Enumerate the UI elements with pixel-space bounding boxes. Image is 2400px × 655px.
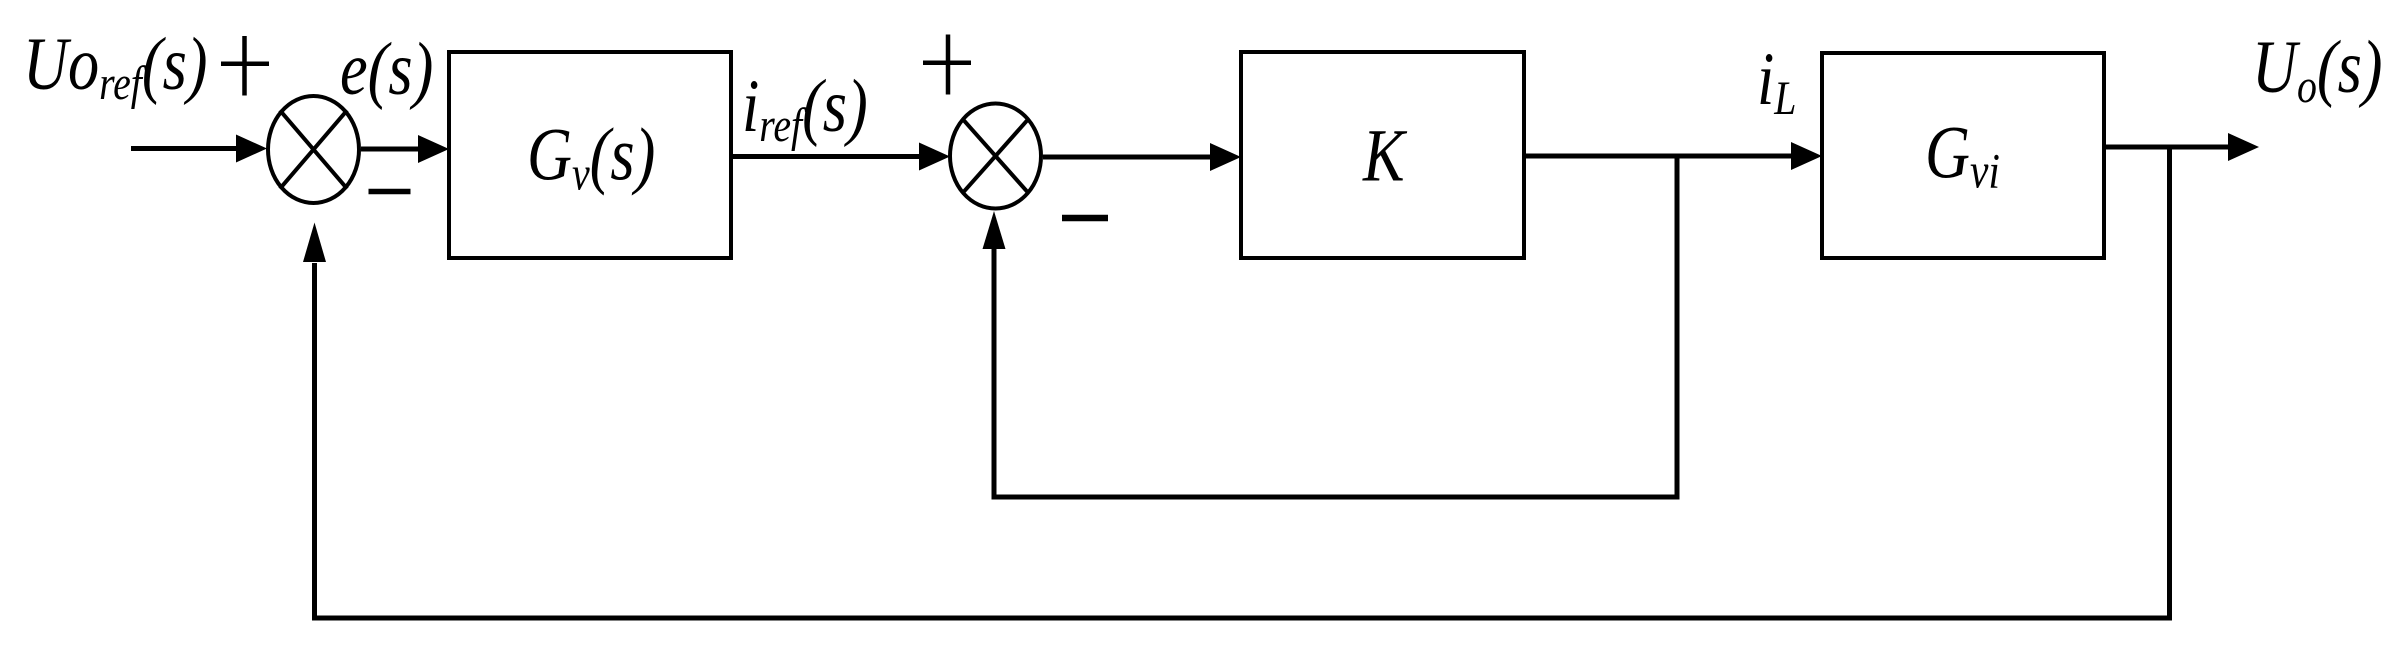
- svg-text:Uo(s): Uo(s): [2252, 26, 2383, 113]
- minus sign below S1 output: [369, 189, 411, 195]
- node e(s) label: [340, 28, 433, 111]
- wire K to Gvi with junction node: [1526, 142, 1822, 170]
- wire Gvi output arrow: [2106, 133, 2259, 161]
- svg-text:e(s): e(s): [340, 28, 433, 111]
- wire input arrow into S1: [131, 135, 267, 163]
- node Uo_ref(s) input label: [23, 23, 208, 110]
- block K label: [1362, 114, 1407, 197]
- block Gvi label: [1925, 111, 2000, 198]
- summing junction S2: [950, 104, 1041, 209]
- svg-text:K: K: [1362, 114, 1407, 197]
- svg-text:Gv(s): Gv(s): [527, 113, 655, 200]
- block Gvi box: [1822, 53, 2104, 258]
- node i_ref(s) label: [742, 65, 868, 152]
- node i_L label: [1757, 38, 1796, 125]
- block Gv(s) label: [527, 113, 655, 200]
- block Gv(s) box: [449, 52, 731, 258]
- wire inner feedback loop from K output down and back to S2: [983, 156, 1678, 497]
- wire outer feedback loop from output down and back to S1: [303, 147, 2170, 618]
- summing junction S1: [268, 96, 359, 203]
- wire S1 to Gv(s) block: [361, 135, 449, 163]
- plus sign at summing junction S2: [923, 35, 971, 95]
- node Uo(s) output label: [2252, 26, 2383, 113]
- minus sign right of S2: [1062, 215, 1108, 222]
- block K box: [1241, 52, 1524, 258]
- wire Gv(s) to S2: [733, 143, 950, 171]
- wire S2 to K block: [1043, 143, 1241, 171]
- plus sign at summing junction S1: [221, 36, 269, 96]
